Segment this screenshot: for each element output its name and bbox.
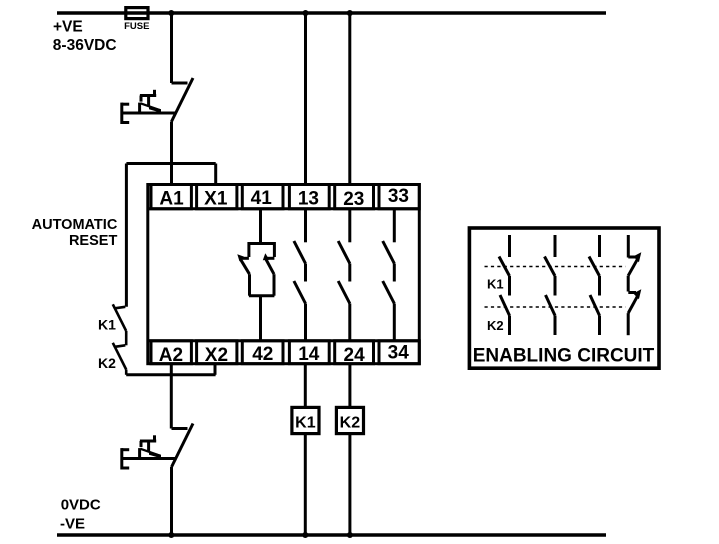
enabling contact column 2 (K1/K2 NO): [545, 235, 556, 335]
wire K1 coil to 0V rail: [304, 434, 307, 535]
left edge lower: [248, 274, 251, 296]
terminal box 13: [289, 185, 329, 210]
wire 41 down: [259, 209, 262, 244]
wire S1 bottom terminal down: [170, 122, 173, 187]
svg-text:24: 24: [344, 345, 366, 366]
U1 bottom terminal row separator: [148, 339, 420, 342]
wire 14 to K1 coil: [304, 364, 307, 408]
relay coil K2: [336, 407, 363, 433]
terminal box X2: [197, 341, 237, 366]
svg-text:RESET: RESET: [69, 233, 117, 249]
S1 moving blade: [172, 78, 194, 122]
svg-text:42: 42: [252, 344, 273, 365]
S2 mushroom head: [120, 448, 123, 469]
svg-text:+VE: +VE: [53, 18, 83, 35]
wire top rail to terminal 23: [348, 13, 351, 186]
terminal box 14: [289, 341, 329, 365]
contact K1 (NC feedback contact in reset loop): [113, 304, 126, 345]
wire reset branch left vertical: [125, 164, 128, 307]
svg-text:K2: K2: [487, 318, 504, 333]
terminal box 34: [379, 341, 419, 364]
wire reset branch bottom: [126, 373, 215, 376]
terminal box 42: [242, 341, 283, 365]
node junction bottom rail / S2: [168, 532, 174, 538]
terminal box A2: [151, 341, 191, 366]
enabling contact column 4 (K1/K2 NC with arrows): [628, 235, 641, 335]
node junction top rail / terminal 23 branch: [347, 10, 353, 16]
enabling contact column 1 (K1/K2 NO): [499, 235, 510, 335]
svg-text:8-36VDC: 8-36VDC: [53, 37, 117, 54]
top bar: [249, 242, 275, 245]
left blade: [240, 259, 249, 274]
svg-text:23: 23: [343, 189, 364, 210]
left arrow: [237, 254, 244, 261]
S1 latch symbol: [153, 90, 156, 97]
node junction bottom rail / K2: [347, 532, 353, 538]
terminal box X1: [197, 185, 237, 210]
svg-text:14: 14: [298, 344, 320, 365]
svg-text:A1: A1: [159, 189, 184, 210]
wire top supply rail +VE: [57, 11, 606, 15]
svg-text:-VE: -VE: [60, 515, 85, 532]
node junction top rail / emergency stop branch: [168, 10, 174, 16]
S2 fixed contact seat: [172, 427, 188, 430]
svg-text:33: 33: [388, 186, 409, 207]
right edge lower: [273, 274, 276, 296]
S1 actuator rod: [122, 112, 177, 115]
S1 mushroom head: [120, 103, 123, 124]
terminal box A1: [151, 185, 191, 210]
svg-text:K1: K1: [295, 415, 316, 432]
wire automatic reset branch top: [126, 162, 215, 165]
S2 actuator rod: [122, 457, 177, 460]
svg-text:X2: X2: [205, 345, 228, 366]
terminal box 33: [379, 185, 419, 209]
svg-text:0VDC: 0VDC: [61, 496, 101, 513]
wire bottom supply rail 0VDC: [57, 533, 606, 537]
svg-text:41: 41: [251, 188, 273, 209]
contact 13-14 (double NO contact inside U1): [294, 209, 306, 341]
contact K2 (NC feedback contact in reset loop): [113, 343, 126, 375]
svg-text:13: 13: [298, 188, 319, 209]
svg-text:34: 34: [388, 343, 410, 364]
right seat tick: [265, 257, 275, 260]
mechanical link dashed line K2 row: [485, 306, 626, 308]
left edge upper: [247, 242, 250, 257]
svg-text:K1: K1: [487, 277, 504, 292]
contact 41-42 (forcibly guided NC contact inside U1): [237, 209, 274, 341]
U1 top terminal row separator: [148, 207, 420, 210]
S2 moving blade: [172, 424, 194, 468]
wire K2 coil to 0V rail: [348, 434, 351, 535]
svg-text:ENABLING CIRCUIT: ENABLING CIRCUIT: [473, 346, 655, 367]
terminal box 24: [335, 341, 374, 366]
enabling contact column 3 (K1/K2 NO): [589, 235, 600, 335]
node junction bottom rail / K1: [302, 532, 308, 538]
enabling circuit box: [469, 228, 659, 368]
svg-text:K1: K1: [98, 317, 116, 333]
wire rail to S1 top terminal: [170, 13, 173, 83]
S2 latch symbol: [153, 435, 156, 442]
wire top rail to terminal 13: [304, 13, 307, 186]
bottom bar: [249, 294, 275, 297]
safety relay module U1 outer box: [148, 185, 420, 364]
mechanical link dashed line K1 row: [485, 266, 626, 268]
terminal box 23: [335, 185, 374, 210]
svg-text:K2: K2: [340, 415, 361, 432]
emergency stop switch S1 (top, NC with mushroom actuator): [122, 13, 194, 186]
relay coil K1: [292, 407, 319, 433]
svg-text:A2: A2: [159, 345, 183, 366]
svg-text:FUSE: FUSE: [124, 21, 149, 32]
wire reset branch to X1: [214, 164, 217, 187]
svg-text:AUTOMATIC: AUTOMATIC: [32, 217, 118, 233]
S1 fixed contact seat: [172, 82, 188, 85]
wire S2 bottom terminal down to 0V rail: [170, 467, 173, 536]
wire A2 down to bottom emergency stop: [170, 364, 173, 429]
contact 33-34 (double NO contact inside U1): [383, 209, 395, 341]
right edge upper: [273, 242, 276, 257]
svg-text:X1: X1: [204, 188, 228, 209]
left seat tick: [239, 257, 249, 260]
terminal box 41: [242, 185, 283, 210]
wire 24 to K2 coil: [348, 364, 351, 408]
wire X2 to reset branch bottom: [214, 364, 217, 375]
emergency stop switch S2 (bottom, NC with mushroom actuator): [122, 424, 194, 536]
fuse F1: [126, 8, 148, 19]
wire 42 up: [259, 296, 262, 341]
svg-text:K2: K2: [98, 355, 116, 371]
right arrow: [263, 253, 270, 260]
contact 23-24 (double NO contact inside U1): [338, 209, 350, 341]
right blade: [266, 259, 274, 274]
node junction top rail / terminal 13 branch: [303, 10, 309, 16]
